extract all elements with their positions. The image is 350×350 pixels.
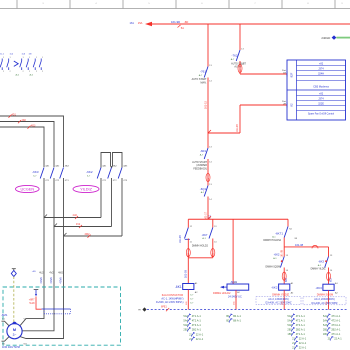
svg-text:4T2 A-1: 4T2 A-1 (331, 318, 341, 322)
svg-text:22 A-1: 22 A-1 (196, 337, 204, 341)
svg-text:4KW 400V 50HZ: 4KW 400V 50HZ (2, 346, 20, 349)
svg-text:4GV6: 4GV6 (50, 277, 53, 284)
svg-text:2B2 A-1: 2B2 A-1 (192, 327, 202, 331)
svg-text:-6D: -6D (184, 20, 189, 24)
svg-text:4T3 A-1: 4T3 A-1 (296, 323, 306, 327)
svg-text:-6M1: -6M1 (1, 313, 8, 317)
svg-text:1N: 1N (29, 54, 32, 56)
svg-text:+82: +82 (319, 93, 324, 96)
svg-text:2B2 A-1: 2B2 A-1 (331, 327, 341, 331)
svg-text:-6K3: -6K3 (32, 170, 39, 174)
svg-text:5A: 5A (181, 26, 184, 30)
svg-text:4D1: 4D1 (12, 113, 17, 116)
svg-text:1H: 1H (283, 73, 286, 75)
svg-text:161-08: 161-08 (295, 243, 304, 247)
svg-text:4U2: 4U2 (73, 214, 78, 217)
svg-text:240GD: 240GD (321, 36, 330, 40)
svg-text:4T1 A-1: 4T1 A-1 (296, 314, 306, 318)
svg-text:4GV6: 4GV6 (40, 277, 43, 284)
svg-text:22 A-1: 22 A-1 (299, 336, 307, 340)
svg-text:D3+43K, AC 230V 50HZ: D3+43K, AC 230V 50HZ (312, 302, 339, 305)
svg-text:4D2: 4D2 (22, 119, 27, 122)
svg-text:4T2 A-1: 4T2 A-1 (296, 318, 306, 322)
svg-text:UCGEN: UCGEN (20, 187, 34, 191)
svg-text:322E: 322E (318, 103, 324, 106)
svg-text:DMMH YILDIZ: DMMH YILDIZ (311, 269, 326, 271)
svg-text:D3+43K, AC 230V 50HZ: D3+43K, AC 230V 50HZ (266, 302, 293, 305)
svg-text:J374: J374 (318, 98, 324, 101)
svg-text:-6K2: -6K2 (271, 286, 278, 290)
svg-text:4T1 A-1: 4T1 A-1 (192, 314, 202, 318)
svg-text:161-17: 161-17 (204, 211, 207, 219)
svg-text:22 A-1: 22 A-1 (196, 332, 204, 336)
svg-text:4T1 A-1: 4T1 A-1 (331, 332, 341, 336)
svg-text:-601: -601 (200, 149, 206, 153)
svg-text:Port: Port (282, 69, 286, 72)
svg-text:4T3 A-1: 4T3 A-1 (331, 323, 341, 327)
svg-text:M: M (13, 328, 16, 332)
svg-text:2H: 2H (283, 104, 286, 106)
svg-text:161-08: 161-08 (281, 249, 284, 257)
svg-text:YILDIZ: YILDIZ (80, 187, 92, 191)
svg-text:82: 82 (290, 103, 294, 107)
svg-text:4W2: 4W2 (58, 272, 64, 275)
svg-text:161-0B: 161-0B (236, 124, 239, 132)
svg-text:161-0B: 161-0B (179, 235, 182, 243)
svg-text:CB3 Moderna: CB3 Moderna (313, 86, 329, 89)
svg-text:6PE1: 6PE1 (161, 305, 168, 308)
svg-text:DMMH HOLDS2: DMMH HOLDS2 (263, 239, 281, 242)
svg-text:4T1 A-1: 4T1 A-1 (331, 314, 341, 318)
svg-text:-6K3: -6K3 (315, 286, 322, 290)
svg-text:161: 161 (130, 21, 135, 25)
svg-text:6AA KONTAKTOR: 6AA KONTAKTOR (162, 293, 184, 297)
svg-text:4U2: 4U2 (39, 272, 44, 275)
svg-text:-6K3: -6K3 (318, 260, 324, 264)
svg-text:22 A-1: 22 A-1 (299, 341, 307, 345)
svg-text:-6K2: -6K2 (86, 170, 93, 174)
svg-text:324H: 324H (318, 73, 324, 76)
svg-text:24-240V UC: 24-240V UC (228, 295, 242, 298)
svg-text:D+50K, AC 230V 50HZ-): D+50K, AC 230V 50HZ-) (156, 301, 184, 304)
svg-text:J374: J374 (318, 68, 324, 71)
svg-text:4V2: 4V2 (49, 272, 54, 275)
svg-text:22 A-1: 22 A-1 (299, 345, 307, 349)
svg-text:MAN.: MAN. (201, 81, 207, 84)
svg-text:+6D: +6D (32, 271, 36, 273)
svg-text:+82: +82 (319, 63, 324, 66)
svg-text:DMMH SQSM: DMMH SQSM (265, 267, 280, 269)
svg-text:82F: 82F (290, 72, 294, 77)
svg-text:AC-3, 20KW(400V): AC-3, 20KW(400V) (314, 298, 335, 301)
svg-text:4T1 A-1: 4T1 A-1 (296, 332, 306, 336)
svg-text:161-15: 161-15 (203, 100, 207, 109)
svg-text:161-0B: 161-0B (185, 270, 188, 278)
svg-text:2B2 A-1: 2B2 A-1 (296, 327, 306, 331)
svg-text:-762: -762 (231, 53, 237, 57)
svg-text:DMMH HOLD2: DMMH HOLD2 (192, 244, 209, 247)
svg-text:-6K7: -6K7 (202, 233, 208, 237)
svg-text:5x18: 5x18 (29, 302, 35, 305)
svg-text:-6K1: -6K1 (175, 285, 182, 289)
svg-text:Spare Fan On/Off Control: Spare Fan On/Off Control (308, 113, 335, 116)
svg-text:4D3: 4D3 (31, 124, 36, 127)
svg-text:15A: 15A (138, 21, 143, 25)
svg-text:3~: 3~ (13, 333, 17, 337)
svg-text:B6 A-1: B6 A-1 (233, 318, 241, 322)
svg-text:-6Q1: -6Q1 (200, 187, 207, 191)
svg-text:-761: -761 (200, 70, 206, 74)
svg-text:161-9D: 161-9D (171, 20, 180, 24)
svg-text:4T2 A-1: 4T2 A-1 (192, 318, 202, 322)
svg-text:22 A-1: 22 A-1 (334, 336, 342, 340)
svg-text:FEEDBACK): FEEDBACK) (193, 168, 207, 171)
svg-text:B4 A-1: B4 A-1 (233, 314, 241, 318)
svg-text:-6K2: -6K2 (274, 253, 280, 257)
svg-text:Port: Port (282, 100, 286, 103)
svg-text:DMMH SQSM: DMMH SQSM (317, 293, 333, 297)
svg-text:-6K71: -6K71 (275, 232, 283, 236)
svg-text:4W2: 4W2 (85, 233, 91, 236)
svg-text:4T3 A-1: 4T3 A-1 (192, 323, 202, 327)
svg-text:AC-3, 13KW(400V): AC-3, 13KW(400V) (268, 298, 289, 301)
svg-text:DMMH YILDIZ: DMMH YILDIZ (272, 292, 289, 296)
svg-text:4V2: 4V2 (76, 223, 81, 226)
svg-text:4GV6: 4GV6 (60, 277, 63, 284)
